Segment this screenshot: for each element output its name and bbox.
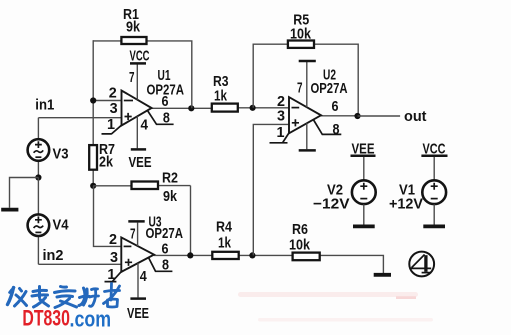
svg-text:7: 7	[297, 80, 303, 97]
U1 pin 7 VCC	[129, 48, 150, 100]
svg-text:8: 8	[162, 257, 169, 274]
svg-text:4: 4	[140, 268, 148, 285]
svg-text:R6: R6	[292, 221, 308, 238]
wire U2 pin3 vertical	[253, 124, 289, 255]
wire R5 right + feedback vertical	[314, 44, 358, 116]
svg-text:OP27A: OP27A	[311, 80, 348, 97]
svg-text:7: 7	[129, 69, 135, 86]
svg-text:3: 3	[110, 100, 118, 117]
resistor R2	[132, 170, 179, 205]
node R4/R6/U2-pin3 junction	[249, 252, 255, 258]
wire to out	[358, 115, 401, 117]
svg-text:3: 3	[277, 108, 285, 125]
wire in1 corner down to V3	[37, 118, 39, 140]
circled number 4	[409, 252, 434, 277]
wire R1 right + feedback vertical	[147, 41, 192, 108]
svg-text:.com: .com	[70, 307, 112, 332]
svg-text:VEE: VEE	[127, 305, 149, 322]
wire bus down to U3 pin2	[94, 186, 122, 247]
op-amp U3	[121, 213, 183, 272]
wire R1 left horizontal	[93, 40, 121, 42]
svg-text:10k: 10k	[289, 237, 311, 254]
wire R2 left horizontal	[93, 185, 131, 187]
svg-text:VEE: VEE	[129, 154, 152, 171]
U1 minus sign	[124, 100, 133, 102]
U3 pin 1 stub	[105, 266, 122, 283]
svg-text:8: 8	[333, 121, 340, 138]
faint pink watermark remnants	[238, 292, 433, 322]
U2 minus sign	[292, 107, 300, 109]
U1 pin 1 stub	[102, 116, 122, 134]
svg-text:1: 1	[107, 266, 115, 283]
source V4	[28, 214, 69, 236]
wire junction down to V4	[37, 178, 39, 215]
resistor R3	[212, 73, 238, 112]
node R3/R5/U2-pin2 junction	[250, 105, 256, 111]
wire left bus vertical (R1 left to R7 top)	[92, 40, 94, 145]
svg-text:6: 6	[162, 240, 169, 257]
ground below V2	[353, 224, 375, 228]
svg-text:in2: in2	[43, 247, 64, 264]
ground left	[1, 208, 18, 212]
svg-text:1k: 1k	[214, 87, 228, 104]
wire R4 right to R6 left	[239, 254, 293, 256]
ground below V1	[423, 224, 445, 228]
svg-text:10k: 10k	[290, 26, 312, 43]
ground R6	[374, 273, 391, 277]
wire in2 to U3 pin3	[38, 263, 121, 265]
svg-text:−12V: −12V	[313, 196, 350, 213]
VEE symbol above V2	[351, 141, 376, 181]
svg-text:+12V: +12V	[389, 196, 423, 213]
svg-text:9k: 9k	[126, 19, 141, 36]
source V2	[313, 180, 376, 212]
resistor R5	[288, 12, 314, 48]
wire V4 bottom to in2 line	[37, 236, 39, 264]
source V3	[28, 139, 69, 162]
svg-text:VCC: VCC	[130, 48, 150, 65]
svg-text:2: 2	[109, 85, 117, 102]
svg-text:1: 1	[107, 116, 115, 133]
wire U3 output to R4	[154, 254, 213, 256]
wire in1 to U1 pin3	[38, 117, 121, 119]
svg-text:7: 7	[130, 226, 136, 243]
svg-text:V4: V4	[53, 217, 70, 234]
U3 minus sign	[124, 245, 132, 247]
U1 plus sign	[125, 113, 132, 120]
wire R3 right to U2 pin2	[237, 107, 289, 109]
U1 pin 4 VEE	[129, 116, 152, 171]
wire R6 right to ground	[320, 255, 384, 273]
wire U2 output	[321, 115, 358, 117]
wire U1 output to R3	[152, 107, 213, 109]
op-amp U2	[289, 67, 348, 134]
svg-text:3: 3	[110, 249, 118, 266]
watermark chinese calligraphy	[8, 284, 120, 308]
U2 pin 7 power bar	[297, 61, 316, 107]
U2 pin 1 stub	[270, 124, 290, 143]
node U1 inverting input junction	[90, 97, 96, 103]
svg-text:1: 1	[277, 124, 285, 141]
U2 pin 8 stub	[314, 120, 342, 138]
resistor R4	[212, 219, 238, 259]
svg-text:out: out	[404, 108, 427, 125]
wire V3 bottom to junction	[37, 161, 39, 178]
node R2-left / R7 junction	[90, 183, 96, 189]
svg-text:in1: in1	[35, 96, 54, 113]
svg-text:2: 2	[109, 231, 117, 248]
svg-text:4: 4	[141, 117, 149, 134]
U3 pin 4 VEE	[127, 263, 149, 322]
svg-text:9k: 9k	[163, 188, 178, 205]
node V3/V4/ground junction	[35, 174, 41, 180]
node U2 output junction	[354, 113, 360, 119]
source V1	[389, 180, 446, 212]
svg-text:V3: V3	[53, 146, 69, 163]
wire R2 feedback vertical	[190, 186, 192, 256]
wire U1 pin2 horizontal	[93, 100, 121, 102]
svg-text:8: 8	[163, 109, 170, 126]
U2 plus sign	[292, 119, 299, 126]
wire V2 to ground	[363, 204, 365, 225]
svg-text:2k: 2k	[99, 154, 114, 171]
U3 plus sign	[125, 259, 132, 266]
U3 pin 8 stub	[149, 257, 173, 274]
wire R7 bottom stem	[92, 170, 94, 186]
wire V1 to ground	[433, 204, 435, 225]
watermark DT830.com	[22, 306, 111, 332]
svg-text:DT830: DT830	[22, 306, 70, 331]
svg-text:6: 6	[162, 93, 169, 110]
wire R5 left + vertical down	[253, 44, 288, 108]
op-amp U1	[122, 67, 185, 126]
resistor R1	[121, 6, 146, 44]
node U3 output junction	[187, 252, 193, 258]
svg-text:R4: R4	[216, 219, 233, 236]
U1 pin 8 stub	[148, 109, 174, 126]
svg-text:6: 6	[332, 98, 339, 115]
resistor R6	[289, 221, 320, 260]
svg-text:1k: 1k	[218, 234, 232, 251]
node U1 output junction	[188, 105, 194, 111]
U2 pin 4 power bar	[299, 123, 316, 150]
U3 pin 7 power bar	[128, 221, 144, 246]
wire junction to left ground	[10, 178, 39, 208]
VCC symbol above V1	[421, 141, 447, 181]
svg-text:R2: R2	[162, 170, 178, 187]
wire R2 right to feedback corner	[158, 185, 191, 187]
resistor R7	[89, 141, 115, 171]
